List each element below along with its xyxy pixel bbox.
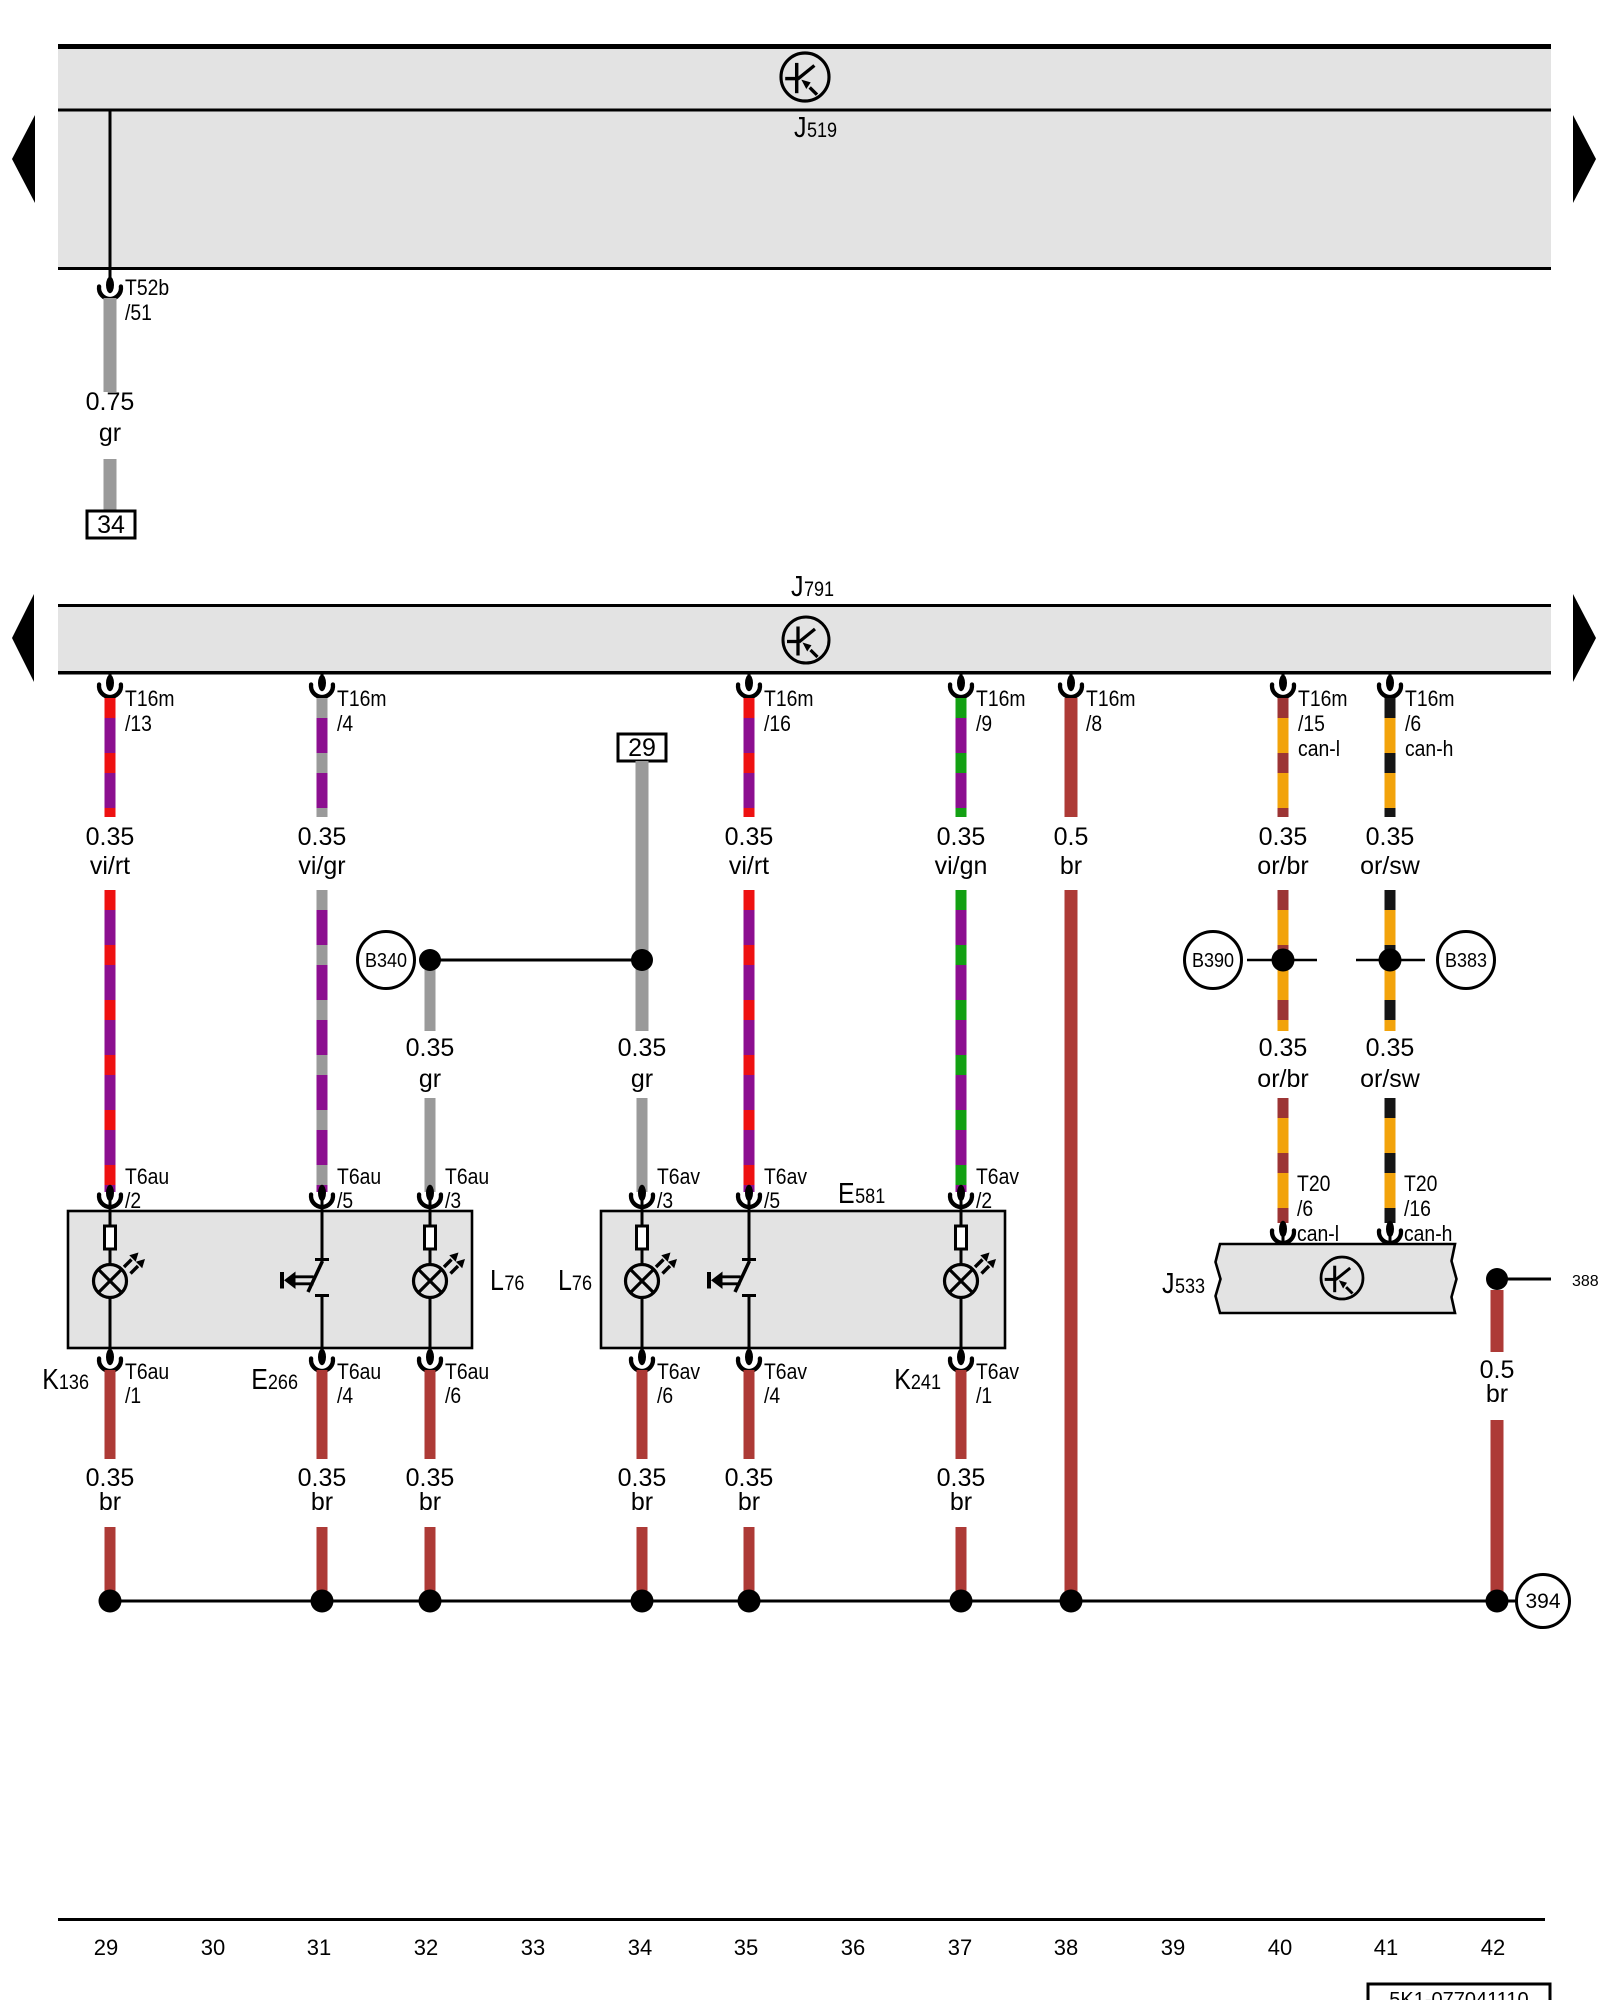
wire 0.35 gr seg3 col 430 (425, 1098, 436, 1192)
wire 0.35 vi/gr seg1 col 322 (317, 698, 328, 817)
wire 0.35 vi/gn seg1 col 961 (956, 698, 967, 817)
svg-text:/3: /3 (445, 1188, 461, 1213)
continuation arrow right (J791) (1573, 594, 1596, 682)
svg-text:br: br (1486, 1380, 1508, 1408)
svg-text:/16: /16 (764, 711, 791, 736)
svg-text:/4: /4 (764, 1383, 780, 1408)
connector T20 into J533 col 1283 (1279, 1221, 1287, 1237)
connector T6au/2 (106, 1185, 114, 1201)
connector T16m/6 (1386, 675, 1394, 691)
svg-text:br: br (419, 1488, 441, 1516)
component box E581 (601, 1211, 1005, 1348)
svg-text:T6av: T6av (764, 1359, 807, 1384)
wire 0.35 br upper col 110 (105, 1370, 116, 1459)
svg-text:T6au: T6au (337, 1164, 381, 1189)
wire 0.75/0.35 gr from box 29 (636, 761, 649, 1031)
svg-text:T6au: T6au (125, 1359, 169, 1384)
svg-text:40: 40 (1268, 1935, 1292, 1960)
svg-text:581: 581 (855, 1185, 885, 1208)
svg-text:br: br (311, 1488, 333, 1516)
control unit J519 (onboard supply control unit) bar (58, 44, 1551, 270)
wire 0.75 gr upper (104, 298, 117, 392)
node B340 circle (358, 932, 415, 989)
wire 0.35 br lower col 110 (105, 1527, 116, 1594)
svg-text:K: K (894, 1364, 911, 1396)
ground junction dot col 961 (950, 1590, 973, 1613)
junction dot B383 (1379, 949, 1402, 972)
connector T6av/1 (957, 1349, 965, 1365)
svg-text:42: 42 (1481, 1935, 1505, 1960)
svg-text:29: 29 (94, 1935, 118, 1960)
svg-text:T6au: T6au (445, 1359, 489, 1384)
wire seg2 col 961 (956, 890, 967, 1192)
wire 0.35 or/br seg1 col 1283 (1278, 698, 1289, 817)
svg-text:T52b: T52b (125, 275, 169, 300)
wire 0.35 vi/rt seg1 col 749 (744, 698, 755, 817)
svg-text:/1: /1 (976, 1383, 992, 1408)
wire 0.35 br lower col 961 (956, 1527, 967, 1594)
connector T16m/16 (745, 675, 753, 691)
svg-text:36: 36 (841, 1935, 865, 1960)
ground node 394 circle (1517, 1575, 1570, 1628)
svg-text:J: J (791, 571, 804, 603)
connector T6au/3 (426, 1185, 434, 1201)
connector T20 into J533 col 1390 (1386, 1221, 1394, 1237)
svg-text:T16m: T16m (125, 686, 175, 711)
svg-text:T6av: T6av (657, 1164, 700, 1189)
wire 0.35 br upper col 430 (425, 1370, 436, 1459)
svg-text:241: 241 (911, 1371, 941, 1394)
svg-text:gr: gr (631, 1065, 653, 1093)
wire 0.35 br lower col 749 (744, 1527, 755, 1594)
junction dot B390 (1272, 949, 1295, 972)
svg-text:T20: T20 (1297, 1171, 1330, 1196)
svg-text:76: 76 (504, 1272, 524, 1295)
svg-text:br: br (950, 1488, 972, 1516)
wire or/sw seg2 (1385, 890, 1396, 1031)
wire 0.35 gr left branch (425, 960, 436, 1031)
connector T6av/5 (745, 1185, 753, 1201)
svg-text:0.75: 0.75 (86, 388, 135, 416)
svg-text:J: J (1162, 1268, 1175, 1300)
svg-text:/9: /9 (976, 711, 992, 736)
svg-text:T16m: T16m (1298, 686, 1348, 711)
connector T16m/4 (318, 675, 326, 691)
B390 stub line (1247, 959, 1317, 962)
indicator lamp lamp K241 (945, 1198, 997, 1361)
wire 0.5 br lower right (1491, 1420, 1504, 1594)
svg-text:0.35: 0.35 (1259, 1034, 1308, 1062)
connector T6au/4 (318, 1349, 326, 1365)
wire 0.35 br lower col 322 (317, 1527, 328, 1594)
svg-text:B340: B340 (365, 950, 407, 972)
connector T16m/9 (957, 675, 965, 691)
svg-text:41: 41 (1374, 1935, 1398, 1960)
pin stub T16m/8 (1070, 674, 1073, 684)
switch button E266 (282, 1198, 329, 1361)
svg-text:br: br (1060, 852, 1082, 880)
drawing number box (1368, 1984, 1550, 2005)
svg-text:38: 38 (1054, 1935, 1078, 1960)
svg-text:0.35: 0.35 (86, 823, 135, 851)
wire seg2 col 110 (105, 890, 116, 1192)
control unit symbol J791 (783, 617, 829, 663)
current track scale line (58, 1918, 1545, 1921)
continuation arrow left (J791) (12, 594, 34, 682)
svg-text:519: 519 (807, 119, 837, 142)
wire 0.35 br upper col 961 (956, 1370, 967, 1459)
svg-text:T16m: T16m (1086, 686, 1136, 711)
svg-text:T6av: T6av (764, 1164, 807, 1189)
svg-text:/6: /6 (1405, 711, 1421, 736)
svg-text:/51: /51 (125, 300, 152, 325)
svg-text:E: E (838, 1178, 855, 1210)
ground rail wire (110, 1600, 1517, 1603)
pin stub T16m/13 (109, 674, 112, 684)
connector T6av/6 (638, 1349, 646, 1365)
svg-text:/8: /8 (1086, 711, 1102, 736)
svg-text:L: L (558, 1265, 572, 1297)
wire 0.35 vi/rt seg1 col 110 (105, 698, 116, 817)
ground junction dot col 322 (311, 1590, 334, 1613)
svg-text:136: 136 (59, 1371, 89, 1394)
svg-text:/6: /6 (657, 1383, 673, 1408)
svg-text:/4: /4 (337, 711, 353, 736)
connection line B340 (430, 959, 642, 962)
svg-text:/5: /5 (764, 1188, 780, 1213)
wire or/br seg2 (1278, 890, 1289, 1031)
svg-text:/1: /1 (125, 1383, 141, 1408)
svg-text:or/sw: or/sw (1360, 1065, 1421, 1093)
junction dot right (B340) (631, 949, 653, 971)
connector T16m/8 (1067, 675, 1075, 691)
svg-text:or/br: or/br (1257, 1065, 1308, 1093)
node B383 circle (1438, 932, 1495, 989)
svg-text:can-h: can-h (1405, 736, 1453, 761)
svg-text:0.35: 0.35 (937, 823, 986, 851)
ground designation box 34 (87, 511, 135, 538)
pin stub T16m/9 (960, 674, 963, 684)
svg-text:can-l: can-l (1297, 1221, 1339, 1246)
svg-text:0.35: 0.35 (618, 1034, 667, 1062)
svg-text:T16m: T16m (1405, 686, 1455, 711)
pin stub T16m/16 (748, 674, 751, 684)
wire 0.75 gr lower (104, 459, 117, 511)
wire 0.35 br lower col 430 (425, 1527, 436, 1594)
connector T16m/13 (106, 675, 114, 691)
svg-text:T6au: T6au (337, 1359, 381, 1384)
continuation arrow left (J519) (12, 115, 35, 203)
svg-text:32: 32 (414, 1935, 438, 1960)
connector T6au/1 (106, 1349, 114, 1365)
svg-text:0.5: 0.5 (1054, 823, 1089, 851)
svg-text:0.35: 0.35 (1366, 1034, 1415, 1062)
svg-text:266: 266 (268, 1371, 298, 1394)
J533 connector pins (1282, 1236, 1285, 1246)
svg-text:388: 388 (1572, 1273, 1599, 1290)
connector T6av/2 (957, 1185, 965, 1201)
svg-text:br: br (631, 1488, 653, 1516)
svg-text:vi/gn: vi/gn (935, 852, 988, 880)
ground junction dot col 430 (419, 1590, 442, 1613)
indicator lamp lamp in L76 right (414, 1198, 466, 1361)
svg-text:0.35: 0.35 (1259, 823, 1308, 851)
svg-text:B390: B390 (1192, 950, 1234, 972)
svg-text:/2: /2 (125, 1188, 141, 1213)
pin stub T52b (109, 270, 112, 287)
svg-text:vi/rt: vi/rt (729, 852, 769, 880)
junction dot left (B340) (419, 949, 441, 971)
svg-text:34: 34 (628, 1935, 652, 1960)
svg-text:gr: gr (99, 419, 121, 447)
svg-text:394: 394 (1525, 1590, 1560, 1613)
svg-text:vi/rt: vi/rt (90, 852, 130, 880)
svg-text:/3: /3 (657, 1188, 673, 1213)
switch button in E581 (709, 1198, 756, 1361)
svg-text:30: 30 (201, 1935, 225, 1960)
svg-text:T6av: T6av (657, 1359, 700, 1384)
svg-text:35: 35 (734, 1935, 758, 1960)
ground junction dot col 110 (99, 1590, 122, 1613)
svg-text:0.35: 0.35 (1366, 823, 1415, 851)
indicator lamp lamp in E581 left (626, 1198, 678, 1361)
svg-text:T6av: T6av (976, 1359, 1019, 1384)
indicator lamp lamp in L76 left (94, 1198, 146, 1361)
connector T52b/51 (106, 277, 114, 293)
wire 0.35 br upper col 749 (744, 1370, 755, 1459)
svg-text:T6au: T6au (125, 1164, 169, 1189)
svg-text:/16: /16 (1404, 1196, 1431, 1221)
svg-text:0.35: 0.35 (725, 823, 774, 851)
stub line to label 388 (1497, 1278, 1551, 1281)
svg-text:br: br (99, 1488, 121, 1516)
svg-text:34: 34 (97, 511, 125, 539)
svg-text:/15: /15 (1298, 711, 1325, 736)
svg-text:T16m: T16m (764, 686, 814, 711)
connector T6au/6 (426, 1349, 434, 1365)
wire 0.5 br down to ground (1065, 890, 1078, 1594)
svg-text:can-l: can-l (1298, 736, 1340, 761)
svg-text:39: 39 (1161, 1935, 1185, 1960)
control unit symbol J519 (781, 53, 829, 101)
connector T6av/3 (638, 1185, 646, 1201)
control unit J791 (parking aid control unit) bar (58, 604, 1551, 674)
connector T6au/5 (318, 1185, 326, 1201)
ground junction dot col 749 (738, 1590, 761, 1613)
ground junction dot col 642 (631, 1590, 654, 1613)
wire 0.5 br seg1 col 1071 (1065, 698, 1078, 817)
wire or/sw seg3 (1385, 1098, 1396, 1223)
svg-text:76: 76 (572, 1272, 592, 1295)
ground junction dot col 1497 (1486, 1590, 1509, 1613)
connector T6av/4 (745, 1349, 753, 1365)
svg-text:33: 33 (521, 1935, 545, 1960)
svg-text:T16m: T16m (976, 686, 1026, 711)
svg-text:br: br (738, 1488, 760, 1516)
wire inside J519 (109, 110, 112, 270)
continuation arrow right (J519) (1573, 115, 1596, 203)
component box L76 switch illumination (68, 1211, 472, 1348)
wire or/br seg3 (1278, 1098, 1289, 1223)
svg-text:/6: /6 (1297, 1196, 1313, 1221)
wire 0.35 br upper col 642 (637, 1370, 648, 1459)
wire seg2 col 322 (317, 890, 328, 1192)
svg-text:5K1-077041110: 5K1-077041110 (1389, 1989, 1528, 2000)
svg-text:or/sw: or/sw (1360, 852, 1421, 880)
svg-text:31: 31 (307, 1935, 331, 1960)
pin stub T16m/6 (1389, 674, 1392, 684)
svg-text:0.35: 0.35 (406, 1034, 455, 1062)
pin stub T16m/15 (1282, 674, 1285, 684)
svg-text:/2: /2 (976, 1188, 992, 1213)
svg-text:/13: /13 (125, 711, 152, 736)
control unit J533 (data bus gateway), torn-edge box (1216, 1244, 1457, 1313)
svg-text:can-h: can-h (1404, 1221, 1452, 1246)
svg-text:533: 533 (1175, 1275, 1205, 1298)
wire 0.35 br upper col 322 (317, 1370, 328, 1459)
svg-text:T6au: T6au (445, 1164, 489, 1189)
svg-text:37: 37 (948, 1935, 972, 1960)
connector T16m/15 (1279, 675, 1287, 691)
svg-text:29: 29 (628, 734, 656, 762)
svg-text:T16m: T16m (337, 686, 387, 711)
control unit symbol J533 (1321, 1257, 1363, 1299)
svg-text:791: 791 (804, 578, 834, 601)
svg-text:L: L (490, 1265, 504, 1297)
svg-text:or/br: or/br (1257, 852, 1308, 880)
svg-text:T20: T20 (1404, 1171, 1437, 1196)
svg-text:T6av: T6av (976, 1164, 1019, 1189)
wire 0.35 or/sw seg1 col 1390 (1385, 698, 1396, 817)
svg-text:K: K (42, 1364, 59, 1396)
svg-text:/5: /5 (337, 1188, 353, 1213)
B383 stub line (1356, 959, 1425, 962)
svg-text:/4: /4 (337, 1383, 353, 1408)
ground junction dot col 1071 (1060, 1590, 1083, 1613)
svg-text:0.35: 0.35 (298, 823, 347, 851)
wire 0.35 br lower col 642 (637, 1527, 648, 1594)
svg-text:J: J (794, 112, 807, 144)
junction dot node 388 (1486, 1268, 1508, 1290)
wire designation box 29 (618, 734, 666, 761)
pin stub T16m/4 (321, 674, 324, 684)
wire 0.5 br upper right (1491, 1290, 1504, 1352)
svg-text:vi/gr: vi/gr (298, 852, 345, 880)
svg-text:E: E (251, 1364, 268, 1396)
svg-text:gr: gr (419, 1065, 441, 1093)
svg-text:/6: /6 (445, 1383, 461, 1408)
wire 0.35 gr seg3 col 642 (637, 1098, 648, 1192)
node B390 circle (1185, 932, 1242, 989)
wire seg2 col 749 (744, 890, 755, 1192)
svg-text:B383: B383 (1445, 950, 1487, 972)
